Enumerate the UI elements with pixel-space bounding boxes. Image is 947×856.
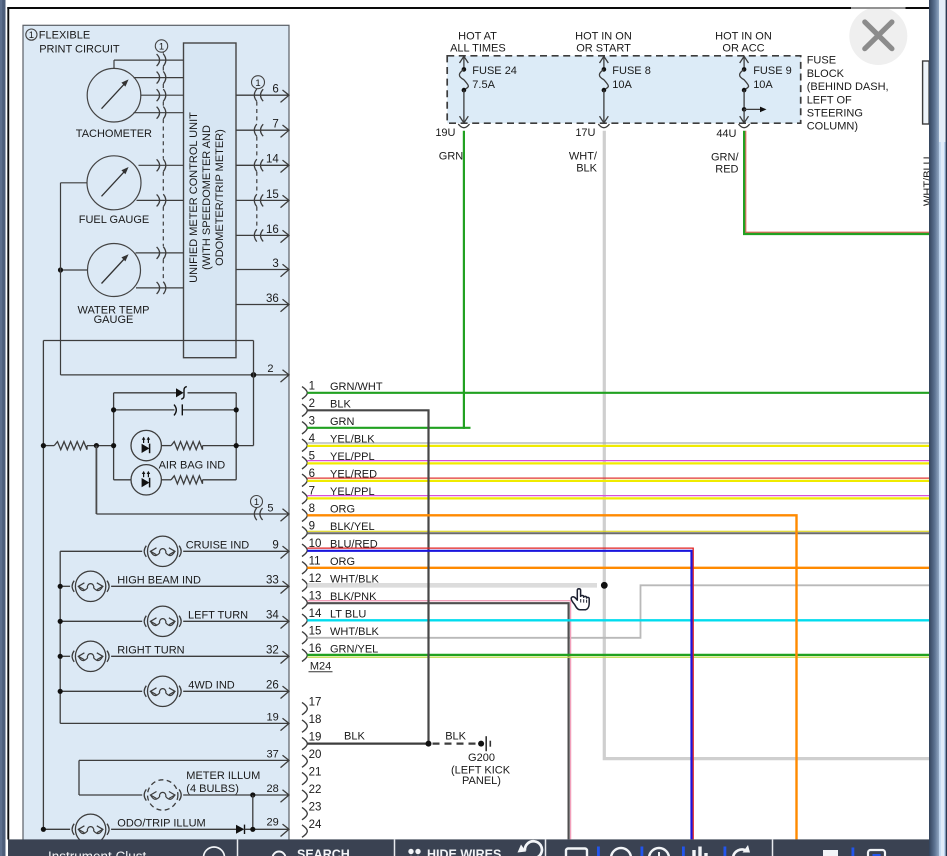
close button — [849, 7, 907, 65]
svg-text:GRN/YEL: GRN/YEL — [330, 644, 378, 656]
svg-text:FUSE 8: FUSE 8 — [612, 65, 651, 77]
connector M24 pins 17-24 — [302, 696, 322, 837]
svg-text:HOT AT: HOT AT — [458, 30, 497, 42]
svg-text:15: 15 — [309, 626, 322, 638]
svg-text:ORG: ORG — [330, 504, 355, 516]
node 44U — [716, 128, 736, 140]
svg-text:COLUMN): COLUMN) — [807, 121, 858, 133]
toolbar search — [273, 848, 350, 856]
wire BLK/PNK pin13 — [307, 601, 570, 840]
diode D1 zener — [114, 387, 237, 400]
svg-text:3: 3 — [309, 416, 315, 428]
header HOT IN ON OR START — [575, 30, 632, 54]
svg-text:(WITH SPEEDOMETER AND: (WITH SPEEDOMETER AND — [201, 125, 213, 270]
fuse F24 7.5A — [458, 56, 517, 127]
resistor R3 — [161, 476, 236, 484]
svg-text:WHT/BLK: WHT/BLK — [330, 626, 380, 638]
svg-text:(4 BULBS): (4 BULBS) — [186, 783, 239, 795]
wire UMC row 2 / node 2 — [61, 183, 290, 382]
toolbar view icons — [566, 845, 750, 856]
svg-text:11: 11 — [309, 556, 321, 568]
svg-text:1: 1 — [159, 42, 164, 53]
svg-text:CRUISE IND: CRUISE IND — [186, 539, 250, 551]
lamp METER ILLUM (4 BULBS) — [79, 770, 289, 829]
lamp 4WD IND — [58, 676, 289, 706]
diode D2 — [236, 816, 289, 836]
svg-text:ODOMETER/TRIP METER): ODOMETER/TRIP METER) — [214, 129, 226, 266]
svg-text:HIGH BEAM IND: HIGH BEAM IND — [117, 574, 201, 586]
svg-text:17U: 17U — [575, 127, 595, 139]
connector 1 flexible circuit column right — [252, 76, 265, 242]
svg-text:GAUGE: GAUGE — [94, 314, 134, 326]
svg-text:10A: 10A — [612, 79, 632, 91]
svg-text:UNIFIED METER CONTROL UNIT: UNIFIED METER CONTROL UNIT — [188, 112, 200, 283]
note 1 circle flexible print circuit — [26, 29, 120, 56]
svg-text:FUSE 24: FUSE 24 — [472, 65, 517, 77]
svg-text:19U: 19U — [435, 127, 455, 139]
wire UMC pin 36 — [236, 293, 289, 312]
fuse block — [447, 56, 801, 123]
svg-text:29: 29 — [267, 816, 279, 828]
wire UMC pin 14 — [236, 154, 289, 173]
wire fuel gauge rows — [61, 165, 184, 200]
svg-text:26: 26 — [266, 680, 279, 692]
svg-text:22: 22 — [309, 784, 322, 796]
wire YEL/RED pin6 — [307, 478, 929, 481]
svg-text:1: 1 — [255, 78, 260, 89]
wire GRN/RED from fuse 9 — [711, 131, 929, 234]
svg-text:7: 7 — [272, 119, 278, 131]
svg-text:1: 1 — [254, 497, 259, 508]
lamp HIGH BEAM IND — [58, 571, 289, 601]
toolbar label Instrument Cluster — [48, 847, 225, 856]
header HOT AT ALL TIMES — [450, 30, 506, 54]
svg-text:21: 21 — [309, 766, 322, 778]
svg-text:14: 14 — [266, 154, 279, 166]
wire GRN from fuse 24 to pin3 — [307, 131, 470, 429]
svg-text:YEL/BLK: YEL/BLK — [330, 434, 375, 446]
wire tachometer row 2 — [134, 77, 184, 79]
svg-text:32: 32 — [266, 645, 279, 657]
svg-text:9: 9 — [272, 540, 278, 552]
flexible print circuit panel — [23, 25, 289, 842]
LED air bag ind 1 — [131, 430, 161, 460]
svg-text:SEARCH: SEARCH — [297, 848, 350, 856]
svg-text:G200: G200 — [468, 752, 495, 764]
svg-text:16: 16 — [266, 224, 279, 236]
wire ORG pin11 — [307, 567, 929, 569]
svg-text:HOT IN ON: HOT IN ON — [715, 30, 772, 42]
svg-text:HIDE WIRES: HIDE WIRES — [427, 848, 501, 856]
svg-text:2: 2 — [267, 363, 273, 375]
fuse F9 10A — [739, 56, 792, 127]
lamp LEFT TURN — [58, 606, 289, 636]
svg-text:BLK: BLK — [445, 731, 466, 743]
svg-text:PRINT CIRCUIT: PRINT CIRCUIT — [39, 44, 120, 56]
lamp CRUISE IND — [60, 536, 289, 566]
wire UMC pin 7 — [236, 119, 289, 138]
svg-text:RED: RED — [715, 163, 738, 175]
left window border strip — [0, 0, 6, 856]
svg-text:4WD IND: 4WD IND — [188, 679, 235, 691]
wire loop from box bottom — [43, 341, 253, 830]
svg-text:WHT/: WHT/ — [569, 151, 598, 163]
svg-text:14: 14 — [309, 608, 322, 620]
svg-text:19: 19 — [309, 731, 322, 743]
svg-text:23: 23 — [309, 801, 322, 813]
svg-text:16: 16 — [309, 643, 322, 655]
svg-text:18: 18 — [309, 714, 322, 726]
svg-text:FUSE: FUSE — [807, 55, 836, 67]
LED air bag ind 2 — [114, 465, 162, 495]
svg-text:BLK: BLK — [576, 162, 597, 174]
wire WHT/BLK from fuse 8 — [569, 131, 929, 759]
fuse F8 10A — [598, 56, 651, 127]
svg-text:BLK: BLK — [344, 731, 365, 743]
svg-text:FUEL GAUGE: FUEL GAUGE — [79, 214, 150, 226]
wire node 5 — [96, 446, 289, 522]
svg-text:33: 33 — [266, 575, 279, 587]
svg-text:8: 8 — [309, 503, 315, 515]
bottom toolbar — [8, 839, 929, 856]
svg-text:2: 2 — [309, 398, 315, 410]
tachometer gauge — [76, 68, 152, 140]
fuse block location note — [807, 55, 889, 133]
unified meter control unit U1 — [184, 43, 237, 358]
svg-text:34: 34 — [266, 610, 279, 622]
wire YEL/PPL pin7 — [307, 496, 929, 499]
toolbar hide wires — [408, 841, 542, 856]
node WHT/BLU label — [922, 156, 934, 206]
header HOT IN ON OR ACC — [715, 30, 772, 54]
svg-text:LT BLU: LT BLU — [330, 609, 366, 621]
svg-text:STEERING: STEERING — [807, 108, 863, 120]
svg-text:GRN: GRN — [330, 416, 355, 428]
wire WHT/BLK pin15 — [307, 585, 929, 638]
wire tachometer row 3 — [141, 94, 184, 96]
mouse cursor hand — [571, 589, 589, 610]
wire WHT/BLK pin12 — [307, 583, 597, 588]
svg-text:17: 17 — [309, 696, 322, 708]
svg-text:15: 15 — [266, 189, 279, 201]
svg-text:BLK: BLK — [330, 399, 351, 411]
node junction pin2/pin19 — [426, 741, 432, 747]
scrollbar — [929, 0, 947, 856]
air bag block frame wires — [114, 393, 237, 480]
svg-text:24: 24 — [309, 819, 322, 831]
node M24 label — [309, 660, 333, 672]
svg-text:ORG: ORG — [330, 556, 355, 568]
ground G200 — [451, 736, 511, 787]
wire BLK pin2 — [307, 410, 428, 743]
svg-text:OR ACC: OR ACC — [722, 43, 764, 55]
svg-text:LEFT TURN: LEFT TURN — [188, 609, 248, 621]
svg-text:GRN: GRN — [439, 151, 464, 163]
lamp ODO/TRIP ILLUM — [41, 814, 236, 844]
svg-text:FUSE 9: FUSE 9 — [753, 65, 792, 77]
fuel gauge — [79, 156, 150, 226]
svg-text:M24: M24 — [310, 660, 331, 672]
svg-text:Instrument Clust: Instrument Clust — [48, 849, 147, 856]
wire UMC pin 15 — [236, 189, 289, 208]
svg-text:PANEL): PANEL) — [462, 775, 501, 787]
wire YEL/PPL pin5 — [307, 461, 929, 464]
svg-text:1: 1 — [29, 30, 34, 41]
node 19U — [435, 127, 455, 139]
svg-text:FLEXIBLE: FLEXIBLE — [39, 30, 90, 42]
connector M24 pins 1-16 — [302, 381, 383, 662]
wire tachometer row 4 — [134, 112, 184, 114]
svg-text:BLOCK: BLOCK — [807, 68, 845, 80]
partial component box right edge — [923, 61, 930, 124]
wire UMC pin 3 — [236, 258, 289, 277]
svg-text:28: 28 — [267, 783, 279, 795]
wire tachometer row 1 — [114, 60, 184, 68]
resistor R2 — [159, 442, 254, 472]
svg-text:GRN/WHT: GRN/WHT — [330, 381, 383, 393]
svg-text:37: 37 — [267, 749, 279, 761]
svg-text:AIR BAG IND: AIR BAG IND — [159, 459, 226, 471]
svg-text:(BEHIND DASH,: (BEHIND DASH, — [807, 81, 889, 93]
wire BLU/RED pin10 — [307, 548, 693, 839]
svg-text:LEFT OF: LEFT OF — [807, 94, 852, 106]
svg-text:ODO/TRIP ILLUM: ODO/TRIP ILLUM — [117, 817, 205, 829]
resistor R1 — [41, 442, 116, 450]
svg-text:3: 3 — [272, 258, 278, 270]
svg-text:5: 5 — [267, 502, 273, 514]
wire GRN/YEL pin16 — [307, 655, 929, 657]
svg-text:19: 19 — [267, 712, 279, 724]
wire ORG pin8 — [307, 515, 796, 839]
wire node 37 row — [79, 749, 289, 795]
svg-text:7.5A: 7.5A — [472, 79, 495, 91]
wire BLK dashed to ground — [433, 731, 479, 744]
svg-text:METER ILLUM: METER ILLUM — [186, 770, 260, 782]
wire LT BLU pin14 — [307, 619, 929, 621]
toolbar print and save icons — [820, 848, 885, 856]
lamp RIGHT TURN — [58, 641, 289, 671]
svg-text:6: 6 — [272, 84, 278, 96]
node 17U — [575, 127, 595, 139]
water temp gauge — [78, 244, 150, 326]
svg-text:44U: 44U — [716, 128, 736, 140]
svg-text:10A: 10A — [753, 79, 773, 91]
svg-text:20: 20 — [309, 749, 322, 761]
wire BLK pin19 — [307, 731, 428, 744]
wire GRN/WHT pin1 — [307, 392, 929, 394]
wire BLK/YEL pin9 — [307, 531, 929, 533]
svg-text:HOT IN ON: HOT IN ON — [575, 30, 632, 42]
wire water temp rows — [58, 253, 184, 288]
wire node 19 row — [60, 712, 289, 731]
capacitor C1 — [111, 404, 239, 415]
node junction WHT/BLK pin12 — [601, 582, 608, 589]
wire UMC pin 16 — [236, 224, 289, 243]
wire lamp common vertical — [59, 551, 61, 723]
svg-text:ALL TIMES: ALL TIMES — [450, 43, 506, 55]
svg-text:GRN/: GRN/ — [711, 152, 739, 164]
wire YEL/BLK pin4 — [307, 443, 929, 446]
svg-text:RIGHT TURN: RIGHT TURN — [117, 644, 184, 656]
wire UMC pin 6 — [236, 84, 289, 103]
svg-text:OR START: OR START — [576, 43, 631, 55]
svg-text:TACHOMETER: TACHOMETER — [76, 128, 152, 140]
connector 1 flexible circuit column left — [155, 40, 167, 294]
svg-text:36: 36 — [266, 293, 279, 305]
svg-text:1: 1 — [309, 381, 315, 393]
